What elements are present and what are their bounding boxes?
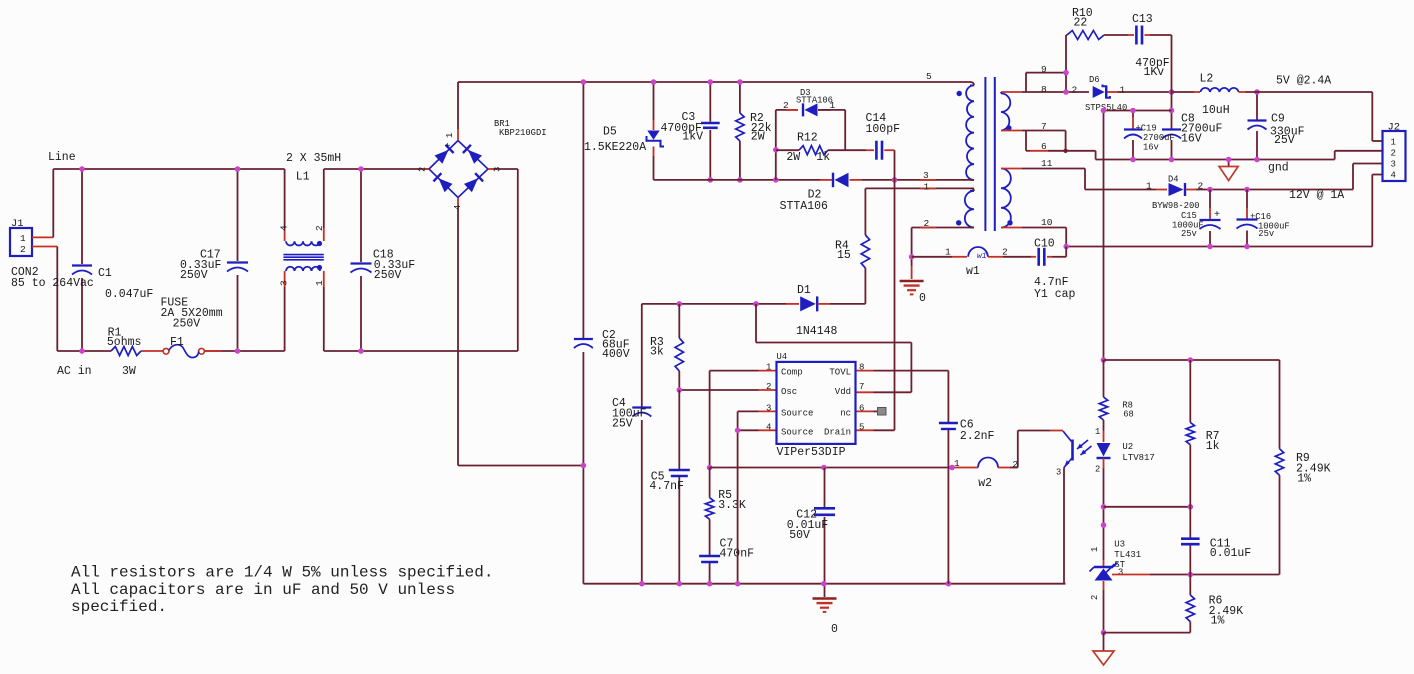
svg-text:w1: w1: [966, 265, 980, 278]
svg-text:STTA106: STTA106: [796, 96, 833, 106]
svg-text:J2: J2: [1388, 122, 1401, 134]
svg-text:5V @2.4A: 5V @2.4A: [1276, 75, 1331, 88]
svg-text:2: 2: [1391, 149, 1396, 159]
svg-text:1: 1: [445, 133, 455, 138]
svg-text:5: 5: [859, 422, 864, 432]
svg-text:2: 2: [1198, 180, 1204, 191]
svg-text:U4: U4: [777, 352, 788, 362]
svg-text:50V: 50V: [789, 529, 810, 542]
svg-text:1%: 1%: [1211, 615, 1225, 628]
svg-text:D6: D6: [1089, 75, 1100, 85]
svg-text:AC in: AC in: [57, 365, 92, 378]
svg-text:1: 1: [766, 363, 771, 373]
svg-text:3: 3: [1056, 468, 1061, 478]
svg-text:2: 2: [1072, 84, 1078, 95]
svg-text:8: 8: [859, 363, 864, 373]
svg-text:VIPer53DIP: VIPer53DIP: [777, 446, 846, 459]
svg-text:4.7nF: 4.7nF: [649, 480, 684, 493]
svg-text:+C19: +C19: [1136, 124, 1157, 134]
svg-text:U2: U2: [1122, 442, 1133, 452]
svg-text:L2: L2: [1200, 72, 1214, 85]
svg-text:12V @ 1A: 12V @ 1A: [1289, 189, 1344, 202]
svg-text:3: 3: [493, 167, 503, 172]
svg-text:Y1 cap: Y1 cap: [1034, 288, 1076, 301]
svg-text:D1: D1: [797, 284, 811, 297]
svg-text:C1: C1: [98, 267, 112, 280]
svg-text:2: 2: [20, 244, 26, 255]
svg-text:w1: w1: [977, 252, 987, 261]
svg-text:1kV: 1kV: [682, 131, 703, 144]
svg-text:1N4148: 1N4148: [796, 325, 838, 338]
svg-text:5: 5: [926, 71, 932, 82]
svg-text:C9: C9: [1271, 113, 1285, 126]
svg-text:1: 1: [1146, 180, 1152, 191]
svg-text:25V: 25V: [612, 417, 633, 430]
svg-text:Source: Source: [781, 409, 813, 419]
svg-text:4: 4: [279, 225, 290, 231]
svg-text:J1: J1: [11, 218, 24, 230]
svg-text:1: 1: [20, 233, 26, 244]
svg-text:R12: R12: [797, 132, 818, 145]
svg-text:25v: 25v: [1181, 229, 1197, 239]
svg-text:0.01uF: 0.01uF: [1210, 547, 1252, 560]
svg-text:22: 22: [1074, 16, 1088, 29]
svg-text:3: 3: [279, 280, 290, 286]
svg-text:1.5KE220A: 1.5KE220A: [584, 141, 646, 154]
svg-text:specified.: specified.: [71, 598, 167, 616]
svg-text:2W: 2W: [786, 151, 800, 164]
svg-text:1: 1: [1391, 137, 1396, 147]
svg-text:1: 1: [954, 458, 960, 469]
svg-text:6: 6: [859, 403, 864, 413]
svg-text:1: 1: [945, 247, 951, 258]
svg-text:Comp: Comp: [781, 368, 803, 378]
svg-text:2.2nF: 2.2nF: [960, 430, 995, 443]
svg-text:68: 68: [1123, 409, 1134, 419]
svg-text:TOVL: TOVL: [829, 368, 851, 378]
svg-text:2: 2: [314, 225, 325, 231]
svg-text:4: 4: [1391, 171, 1396, 181]
svg-text:2: 2: [783, 100, 789, 111]
svg-text:1%: 1%: [1297, 472, 1311, 485]
svg-text:2: 2: [766, 382, 771, 392]
svg-text:LTV817: LTV817: [1122, 453, 1154, 463]
svg-text:8: 8: [1041, 84, 1047, 95]
svg-text:2W: 2W: [751, 131, 765, 144]
svg-text:C13: C13: [1132, 13, 1153, 26]
svg-text:25v: 25v: [1258, 229, 1274, 239]
svg-text:0: 0: [919, 292, 926, 305]
svg-text:U3: U3: [1114, 539, 1125, 549]
svg-text:1: 1: [1090, 547, 1100, 552]
svg-text:1: 1: [830, 100, 836, 111]
svg-text:400V: 400V: [602, 348, 630, 361]
svg-text:10uH: 10uH: [1202, 104, 1230, 117]
svg-text:All capacitors are in uF and 5: All capacitors are in uF and 50 V unless: [71, 581, 455, 599]
svg-text:25V: 25V: [1274, 134, 1295, 147]
svg-text:+C16: +C16: [1250, 212, 1271, 222]
svg-text:7: 7: [859, 382, 864, 392]
svg-text:+: +: [445, 142, 451, 153]
svg-text:Line: Line: [48, 151, 76, 164]
svg-text:1: 1: [1120, 84, 1126, 95]
svg-text:2: 2: [1002, 247, 1008, 258]
svg-text:16V: 16V: [1181, 132, 1202, 145]
svg-text:2: 2: [924, 218, 930, 229]
svg-text:KBP210GDI: KBP210GDI: [499, 128, 547, 138]
svg-text:3: 3: [766, 403, 771, 413]
svg-text:Osc: Osc: [781, 387, 797, 397]
svg-text:1Kv: 1Kv: [1144, 66, 1165, 79]
svg-text:2: 2: [1090, 595, 1100, 600]
svg-text:D4: D4: [1168, 174, 1179, 184]
svg-text:1: 1: [314, 280, 325, 286]
svg-text:3.3K: 3.3K: [718, 499, 746, 512]
svg-text:gnd: gnd: [1268, 162, 1289, 175]
svg-text:250V: 250V: [173, 318, 201, 331]
svg-text:STTA106: STTA106: [780, 200, 828, 213]
svg-text:w2: w2: [978, 477, 992, 490]
svg-text:15: 15: [837, 249, 851, 262]
svg-text:3: 3: [1391, 160, 1396, 170]
svg-text:C10: C10: [1034, 237, 1055, 250]
svg-text:0.047uF: 0.047uF: [105, 288, 153, 301]
svg-text:1k: 1k: [1206, 440, 1220, 453]
svg-text:250V: 250V: [180, 269, 208, 282]
svg-text:Drain: Drain: [824, 428, 851, 438]
svg-text:2: 2: [1012, 459, 1018, 470]
svg-text:1: 1: [1095, 427, 1100, 437]
svg-text:1: 1: [924, 181, 930, 192]
svg-text:2: 2: [418, 167, 428, 172]
svg-text:250V: 250V: [374, 269, 402, 282]
svg-text:16v: 16v: [1143, 143, 1159, 153]
svg-text:2 X 35mH: 2 X 35mH: [286, 152, 341, 165]
svg-text:F1: F1: [170, 336, 184, 349]
svg-text:nc: nc: [840, 409, 851, 419]
svg-text:3: 3: [923, 170, 929, 181]
svg-text:TL431: TL431: [1114, 550, 1141, 560]
svg-text:1k: 1k: [816, 151, 830, 164]
svg-text:+: +: [1214, 210, 1220, 221]
svg-text:3k: 3k: [650, 346, 664, 359]
svg-text:BYW98-200: BYW98-200: [1152, 201, 1200, 211]
svg-text:100pF: 100pF: [866, 123, 901, 136]
svg-text:STPS5L40: STPS5L40: [1085, 103, 1127, 113]
svg-text:85 to 264Vac: 85 to 264Vac: [11, 277, 94, 290]
svg-text:Vdd: Vdd: [835, 387, 851, 397]
svg-text:5ohms: 5ohms: [107, 336, 142, 349]
svg-text:3W: 3W: [122, 365, 136, 378]
svg-text:2: 2: [1095, 465, 1100, 475]
svg-text:L1: L1: [296, 171, 310, 184]
svg-text:All resistors are 1/4 W 5% unl: All resistors are 1/4 W 5% unless specif…: [71, 564, 493, 582]
svg-text:3: 3: [1118, 568, 1123, 578]
svg-text:4: 4: [766, 422, 771, 432]
svg-text:0: 0: [831, 623, 838, 636]
svg-text:4: 4: [453, 205, 463, 210]
svg-text:C15: C15: [1181, 211, 1197, 221]
svg-text:10: 10: [1041, 217, 1053, 228]
svg-text:D5: D5: [603, 126, 617, 139]
svg-text:11: 11: [1041, 158, 1053, 169]
svg-text:Source: Source: [781, 428, 813, 438]
